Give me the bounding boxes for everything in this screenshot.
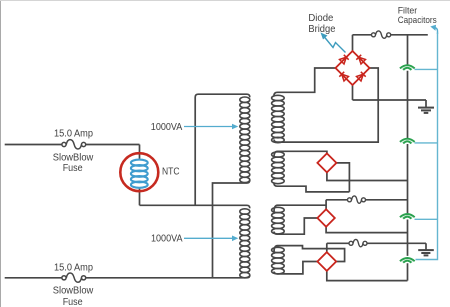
- svg-text:15.0 Amp: 15.0 Amp: [54, 262, 93, 273]
- wire S3 bottom step to D3 left: [274, 218, 317, 234]
- diode bridge B1 diode lower-right: [357, 72, 366, 81]
- wire T1 primary bottom to junction vertical: [213, 180, 250, 278]
- diode diamond D3: [317, 209, 334, 226]
- capacitor C3: [400, 214, 415, 219]
- wire D4 bottom to bus bottom: [327, 271, 408, 281]
- fuse F1 15.0 Amp top: [62, 140, 86, 149]
- wire D3 top stub to fuse line: [326, 200, 407, 210]
- wire NTC bottom drop: [139, 188, 141, 206]
- arrow 1000VA top: [184, 124, 238, 130]
- wire filter bus vertical: [407, 35, 409, 281]
- arrow 1000VA bottom: [184, 236, 238, 242]
- svg-text:NTC: NTC: [162, 167, 180, 178]
- wire T1 primary left vertical: [195, 94, 250, 205]
- capacitor C2: [400, 139, 415, 144]
- fuse F4: [348, 196, 366, 203]
- wire S1 top to bridge left: [274, 68, 336, 96]
- capacitor C4: [400, 258, 415, 263]
- capacitor C1: [400, 65, 415, 70]
- svg-text:1000VA: 1000VA: [151, 233, 183, 244]
- wire S1 bottom to bridge right: [274, 68, 378, 142]
- wire cyan tap C3: [415, 218, 438, 220]
- transformer T1 primary coil: [240, 97, 250, 183]
- wire cyan tap C2: [415, 142, 438, 144]
- NTC coil: [131, 160, 148, 188]
- wire NTC output to T2 primary top: [140, 205, 250, 208]
- svg-text:15.0 Amp: 15.0 Amp: [54, 128, 93, 139]
- transformer T1 secondary winding S1 coil: [272, 95, 285, 142]
- diode diamond D4: [317, 252, 336, 271]
- wire bridge top stub and fuse line: [353, 35, 428, 51]
- ground G1: [418, 108, 434, 113]
- fuse F2 15.0 Amp bottom: [62, 273, 86, 282]
- diode bridge B1 diamond: [336, 51, 370, 85]
- arrow Filter Capacitors: [434, 27, 438, 34]
- svg-text:Capacitors: Capacitors: [398, 15, 437, 26]
- transformer T2 primary coil: [240, 209, 250, 278]
- wire D2 right corner down: [336, 163, 349, 192]
- NTC circle: [120, 153, 158, 191]
- wire bottom AC line left: [5, 277, 62, 279]
- wire T2 primary bottom hook: [247, 275, 250, 278]
- svg-text:Diode: Diode: [308, 13, 333, 24]
- sheet border left: [0, 0, 2, 307]
- diode bridge B1 diode lower-left: [339, 72, 348, 81]
- wire D3 bottom to bus: [326, 227, 407, 233]
- arrow Diode Bridge zigzag: [324, 37, 346, 53]
- svg-text:Fuse: Fuse: [63, 163, 83, 174]
- transformer T2 secondary winding S4 coil: [272, 247, 285, 274]
- transformer T1 secondary winding S2 coil: [272, 152, 285, 184]
- diode diamond D2: [317, 153, 336, 172]
- diode bridge B1 diode upper-left: [340, 55, 349, 64]
- diode bridge B1 diode upper-right: [356, 55, 365, 64]
- wire S3 top: [274, 205, 326, 212]
- svg-text:1000VA: 1000VA: [151, 122, 183, 133]
- wire S4 bottom step to D4 left: [274, 262, 317, 274]
- wire bottom AC line right of fuse to T2: [86, 277, 247, 279]
- transformer T2 secondary winding S3 coil: [272, 207, 285, 234]
- sheet border top: [0, 0, 450, 2]
- wire D2 bottom to bus: [327, 172, 408, 180]
- wire D4 top stub and fuse line to ground G2: [327, 243, 426, 252]
- wire bridge bottom to ground G1: [353, 85, 427, 107]
- svg-text:SlowBlow: SlowBlow: [53, 286, 94, 297]
- wire NTC top drop: [139, 145, 141, 159]
- wire top AC line left: [5, 144, 62, 146]
- fuse F3 bridge output: [372, 31, 391, 38]
- wire cyan bus vertical: [415, 33, 438, 260]
- wire top AC line right of fuse: [86, 144, 140, 146]
- wire cyan tap C1: [415, 68, 438, 70]
- wire S2 bottom step to D2 right node: [274, 184, 349, 192]
- svg-text:Fuse: Fuse: [63, 297, 83, 307]
- ground G2: [418, 250, 434, 255]
- wire S2 top to D2 top: [274, 151, 327, 157]
- wire S4 top step to D4 right: [274, 246, 345, 262]
- fuse F5: [349, 239, 367, 246]
